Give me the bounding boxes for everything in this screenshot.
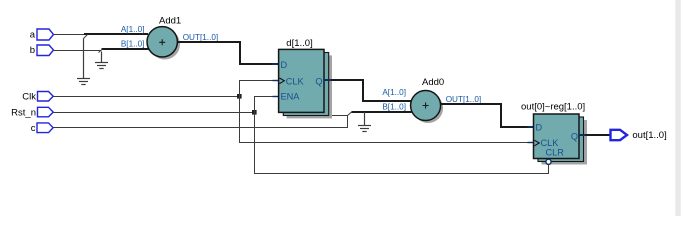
svg-text:OUT[1..0]: OUT[1..0] <box>446 95 482 104</box>
adder Add0 <box>411 91 441 121</box>
gnd jog diagonal into bus A <box>84 35 88 39</box>
svg-text:B[1..0]: B[1..0] <box>121 40 145 49</box>
svg-text:B[1..0]: B[1..0] <box>382 103 406 112</box>
wire Rst_n up to ENA of d-reg <box>255 97 273 113</box>
wire Rst_n from pin to junction <box>53 112 254 114</box>
input pin b <box>30 45 54 56</box>
wire Rst_n down to CLR bubble of out-reg <box>255 113 549 174</box>
clock triangle of out-reg <box>534 140 539 146</box>
wire b to bus merge <box>54 50 102 52</box>
svg-text:c: c <box>31 123 36 134</box>
register out[0]~reg[1..0] stacked rect <box>538 117 584 162</box>
wire Clk down to CLK of out-reg <box>240 97 528 143</box>
ground stem (for B bus) <box>101 52 103 63</box>
svg-text:CLR: CLR <box>546 147 565 157</box>
svg-text:b: b <box>30 45 35 56</box>
svg-text:Add0: Add0 <box>422 77 444 88</box>
bus Q of out-reg to output pin <box>586 134 611 136</box>
input pin Clk <box>22 92 53 103</box>
svg-text:ENA: ENA <box>281 91 301 101</box>
bus OUT of Add1 to D of d-reg <box>177 42 273 64</box>
svg-text:OUT[1..0]: OUT[1..0] <box>183 33 219 42</box>
svg-text:Q: Q <box>315 76 322 86</box>
svg-text:out[1..0]: out[1..0] <box>632 130 666 141</box>
input pin Rst_n <box>11 107 53 118</box>
navy CLK stub of d-reg <box>273 80 280 82</box>
register d[1..0] <box>279 49 324 112</box>
output pin out[1..0] <box>611 130 667 141</box>
adder Add0 shadow <box>413 93 443 123</box>
ground symbol near Add0 <box>358 126 371 132</box>
CLR bubble of out-reg <box>546 159 551 164</box>
svg-text:d[1..0]: d[1..0] <box>286 38 312 49</box>
bus Q of d-reg to A of Add0 <box>331 80 412 101</box>
svg-text:Clk: Clk <box>22 92 36 103</box>
register d[1..0] stacked rect <box>283 53 328 116</box>
svg-text:A[1..0]: A[1..0] <box>121 25 145 34</box>
register out[0]~reg[1..0] shadow <box>542 120 588 165</box>
ground symbol under b <box>95 63 108 69</box>
gnd jog diagonal into bus B <box>99 49 103 53</box>
adder Add1 <box>147 27 177 57</box>
navy D stub of out-reg <box>528 126 535 128</box>
svg-text:A[1..0]: A[1..0] <box>382 88 406 97</box>
wire Clk up to CLK of d-reg <box>240 81 273 97</box>
plus sign Add1 <box>159 39 165 45</box>
jog diagonal into bus B of Add0 <box>348 112 352 116</box>
register d[1..0] shadow <box>287 55 332 118</box>
svg-text:Rst_n: Rst_n <box>11 107 36 118</box>
right panel strip <box>675 0 681 216</box>
navy Q stub of out-reg <box>579 134 586 136</box>
input pin c <box>31 123 53 134</box>
junction on Clk net <box>237 94 242 99</box>
svg-text:Add1: Add1 <box>159 16 181 27</box>
svg-text:CLK: CLK <box>286 76 305 86</box>
wire Clk from pin to junction <box>53 96 239 98</box>
svg-text:D: D <box>281 60 288 70</box>
ground symbol left <box>77 79 90 85</box>
navy D stub of d-reg <box>273 63 280 65</box>
plus sign Add0 <box>423 103 429 109</box>
register out[0]~reg[1..0] <box>534 114 580 159</box>
bus A into Add1 <box>84 33 148 35</box>
wire c from pin <box>53 115 347 128</box>
adder Add1 shadow <box>150 29 180 59</box>
clock triangle of d-reg <box>280 78 285 84</box>
svg-text:Q: Q <box>571 132 578 142</box>
navy CLK stub of out-reg <box>528 142 535 144</box>
input pin a <box>30 29 54 41</box>
ground stem (for B bus of Add0) <box>364 112 366 126</box>
stub under d-reg joining c net <box>330 115 348 117</box>
svg-text:a: a <box>30 30 36 41</box>
svg-text:out[0]~reg[1..0]: out[0]~reg[1..0] <box>521 102 585 113</box>
junction on Rst_n net <box>252 110 257 115</box>
navy Q stub of d-reg <box>324 79 332 81</box>
ground stem left (for A bus) <box>83 39 85 79</box>
wire a to bus merge <box>54 34 85 36</box>
navy ENA stub of d-reg <box>273 96 280 98</box>
bus OUT of Add0 to D of out-reg <box>441 104 528 127</box>
svg-text:D: D <box>536 122 543 132</box>
bus B into Add0 <box>352 111 412 113</box>
bus B into Add1 <box>102 48 151 50</box>
